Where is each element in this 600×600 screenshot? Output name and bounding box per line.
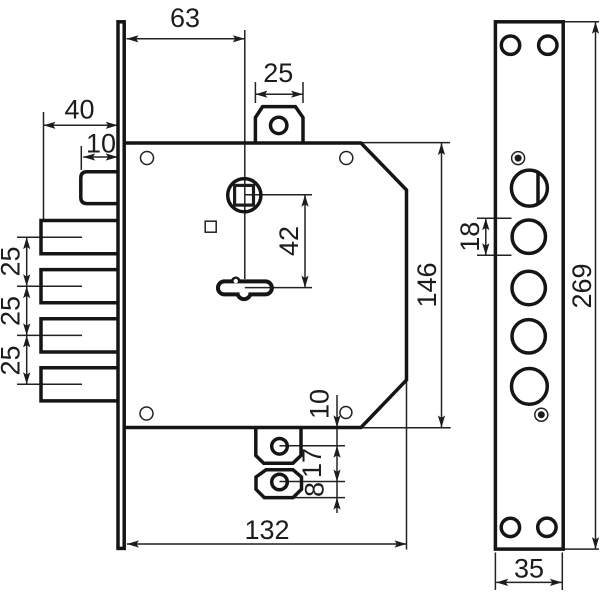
svg-text:10: 10 xyxy=(304,389,334,419)
plate screw lower dot xyxy=(538,411,545,418)
dim 10 tab down arrow xyxy=(333,415,340,427)
dim 18 extension line top xyxy=(477,217,512,219)
cylinder cam chord xyxy=(536,172,540,205)
svg-text:42: 42 xyxy=(274,226,304,256)
case screw hole bottom-left xyxy=(140,407,153,420)
plate screw upper xyxy=(512,152,525,165)
deadbolt 3 xyxy=(41,319,119,352)
deadbolt 2 xyxy=(41,270,119,303)
dim 269 line xyxy=(595,22,597,549)
plate bolt hole 1 xyxy=(512,220,545,253)
dim 25 chain arrow b xyxy=(23,274,30,286)
dim 40 line xyxy=(44,124,118,126)
bottom tab 1 xyxy=(256,429,301,463)
dim 18 up arrow xyxy=(482,218,489,230)
bottom tab 2 xyxy=(256,470,302,498)
svg-text:10: 10 xyxy=(86,129,116,159)
svg-text:25: 25 xyxy=(0,296,25,326)
dim 10/17/8 stack line xyxy=(336,395,338,513)
extension line: lock centerline (vertical) xyxy=(244,30,246,279)
tab circle 1 centerline xyxy=(280,445,346,447)
dim 10 latch right arrow xyxy=(106,153,118,160)
dim 25 chain line xyxy=(26,237,28,384)
dim 42 line xyxy=(304,195,306,288)
dim 269 up arrow xyxy=(592,22,599,34)
dim 35 extension line left xyxy=(494,553,496,591)
top tab hole xyxy=(271,117,287,133)
deadbolt 4 xyxy=(41,368,119,401)
dim 25 chain arrow c xyxy=(23,286,30,298)
dim 10 latch line xyxy=(83,156,118,158)
dim 269 extension line bottom xyxy=(564,548,599,550)
plate screw lower xyxy=(535,408,548,421)
spindle follower circle xyxy=(228,179,261,212)
dim 18 extension line bottom xyxy=(477,254,512,256)
svg-text:8: 8 xyxy=(299,482,329,497)
plate bolt hole 4 xyxy=(512,369,548,405)
dim 25 top extension line right xyxy=(302,82,304,103)
dim 269 down arrow xyxy=(592,537,599,549)
deadbolt 1 xyxy=(41,221,119,254)
top mounting tab xyxy=(255,107,303,142)
keyhole centerline overlay xyxy=(245,287,272,289)
dim 35 right arrow xyxy=(550,579,562,586)
dim 40 extension line xyxy=(43,112,45,220)
dim 42 down arrow xyxy=(301,276,308,288)
svg-text:25: 25 xyxy=(263,58,293,88)
dim 10 latch extension line xyxy=(80,146,82,170)
strike plate outline xyxy=(495,22,563,549)
dim 132 right arrow xyxy=(395,540,407,547)
dim 25 chain arrow e xyxy=(23,335,30,347)
cylinder hole xyxy=(511,170,547,206)
dim 146 extension line bottom xyxy=(361,427,451,429)
bottom tab hole 1 xyxy=(272,439,288,455)
case screw hole bottom-right xyxy=(340,407,352,419)
dim 18 line xyxy=(485,218,487,255)
faceplate side view xyxy=(118,22,124,549)
dim 25 top extension line left xyxy=(254,82,256,103)
tab bottom extension line xyxy=(290,497,345,499)
plate hole bottom-right xyxy=(538,518,556,536)
case screw hole top-left xyxy=(141,152,154,165)
dim 146 down arrow xyxy=(438,416,445,428)
svg-text:63: 63 xyxy=(170,3,200,33)
svg-text:132: 132 xyxy=(244,515,289,545)
dim 63 line xyxy=(127,38,245,40)
plate hole top-right xyxy=(539,36,557,54)
dim 40 right arrow xyxy=(106,122,118,129)
dim 146 extension line top xyxy=(361,142,450,144)
dim 35 left arrow xyxy=(496,579,508,586)
dim 25 chain arrow a xyxy=(23,237,30,249)
plate bolt hole 3 xyxy=(512,320,545,353)
bolt 4 centerline xyxy=(17,383,82,385)
lock case body xyxy=(124,143,406,428)
dim 35 line xyxy=(496,581,562,583)
dim 42 up arrow xyxy=(301,195,308,207)
dim 18 down arrow xyxy=(482,243,489,255)
svg-text:35: 35 xyxy=(514,554,544,584)
dim 63 left arrow xyxy=(127,35,139,42)
tab circle 2 centerline xyxy=(280,481,346,483)
dim 25 top line xyxy=(255,93,303,95)
dim 25 chain arrow f xyxy=(23,372,30,384)
dim 8 up arrow xyxy=(333,498,340,510)
keyhole silhouette xyxy=(216,277,274,302)
keyhole interior xyxy=(220,279,270,297)
dim 10 latch left arrow xyxy=(83,153,95,160)
latch bolt xyxy=(81,172,119,204)
follower centerline to dim 42 xyxy=(245,194,312,196)
dim 25 chain arrow d xyxy=(23,323,30,335)
dim 17 up arrow xyxy=(333,446,340,458)
dim 63 right arrow xyxy=(233,35,245,42)
dim 269 extension line top xyxy=(564,21,599,23)
svg-text:146: 146 xyxy=(412,262,442,307)
dim 25 top left arrow xyxy=(255,91,267,98)
svg-text:40: 40 xyxy=(64,94,94,124)
case screw hole top-right xyxy=(340,152,353,165)
dim 132 left arrow xyxy=(127,540,139,547)
bolt 2 centerline xyxy=(17,285,82,287)
spindle follower square xyxy=(235,185,254,205)
small square opening xyxy=(205,221,216,232)
keyhole centerline to dim 42 xyxy=(245,287,312,289)
dim 146 up arrow xyxy=(438,143,445,155)
bolt 3 centerline xyxy=(17,334,82,336)
bottom tab hole 2 xyxy=(272,474,288,490)
plate bolt hole 2 xyxy=(512,271,545,304)
svg-text:25: 25 xyxy=(0,246,25,276)
dim 146 line xyxy=(441,143,443,428)
dim 25 top right arrow xyxy=(291,91,303,98)
svg-text:269: 269 xyxy=(567,263,597,308)
plate hole top-left xyxy=(501,36,519,54)
bolt 1 centerline xyxy=(17,236,82,238)
svg-text:18: 18 xyxy=(455,222,485,252)
plate hole bottom-left xyxy=(501,518,519,536)
dim 17 down arrow xyxy=(333,470,340,482)
dim 35 extension line right xyxy=(561,553,563,591)
svg-text:25: 25 xyxy=(0,345,25,375)
dim 132 right extension line xyxy=(406,382,408,550)
svg-text:17: 17 xyxy=(297,448,327,478)
dim 40 left arrow xyxy=(44,122,56,129)
dim 132 line xyxy=(127,543,407,545)
plate screw upper dot xyxy=(515,155,522,162)
